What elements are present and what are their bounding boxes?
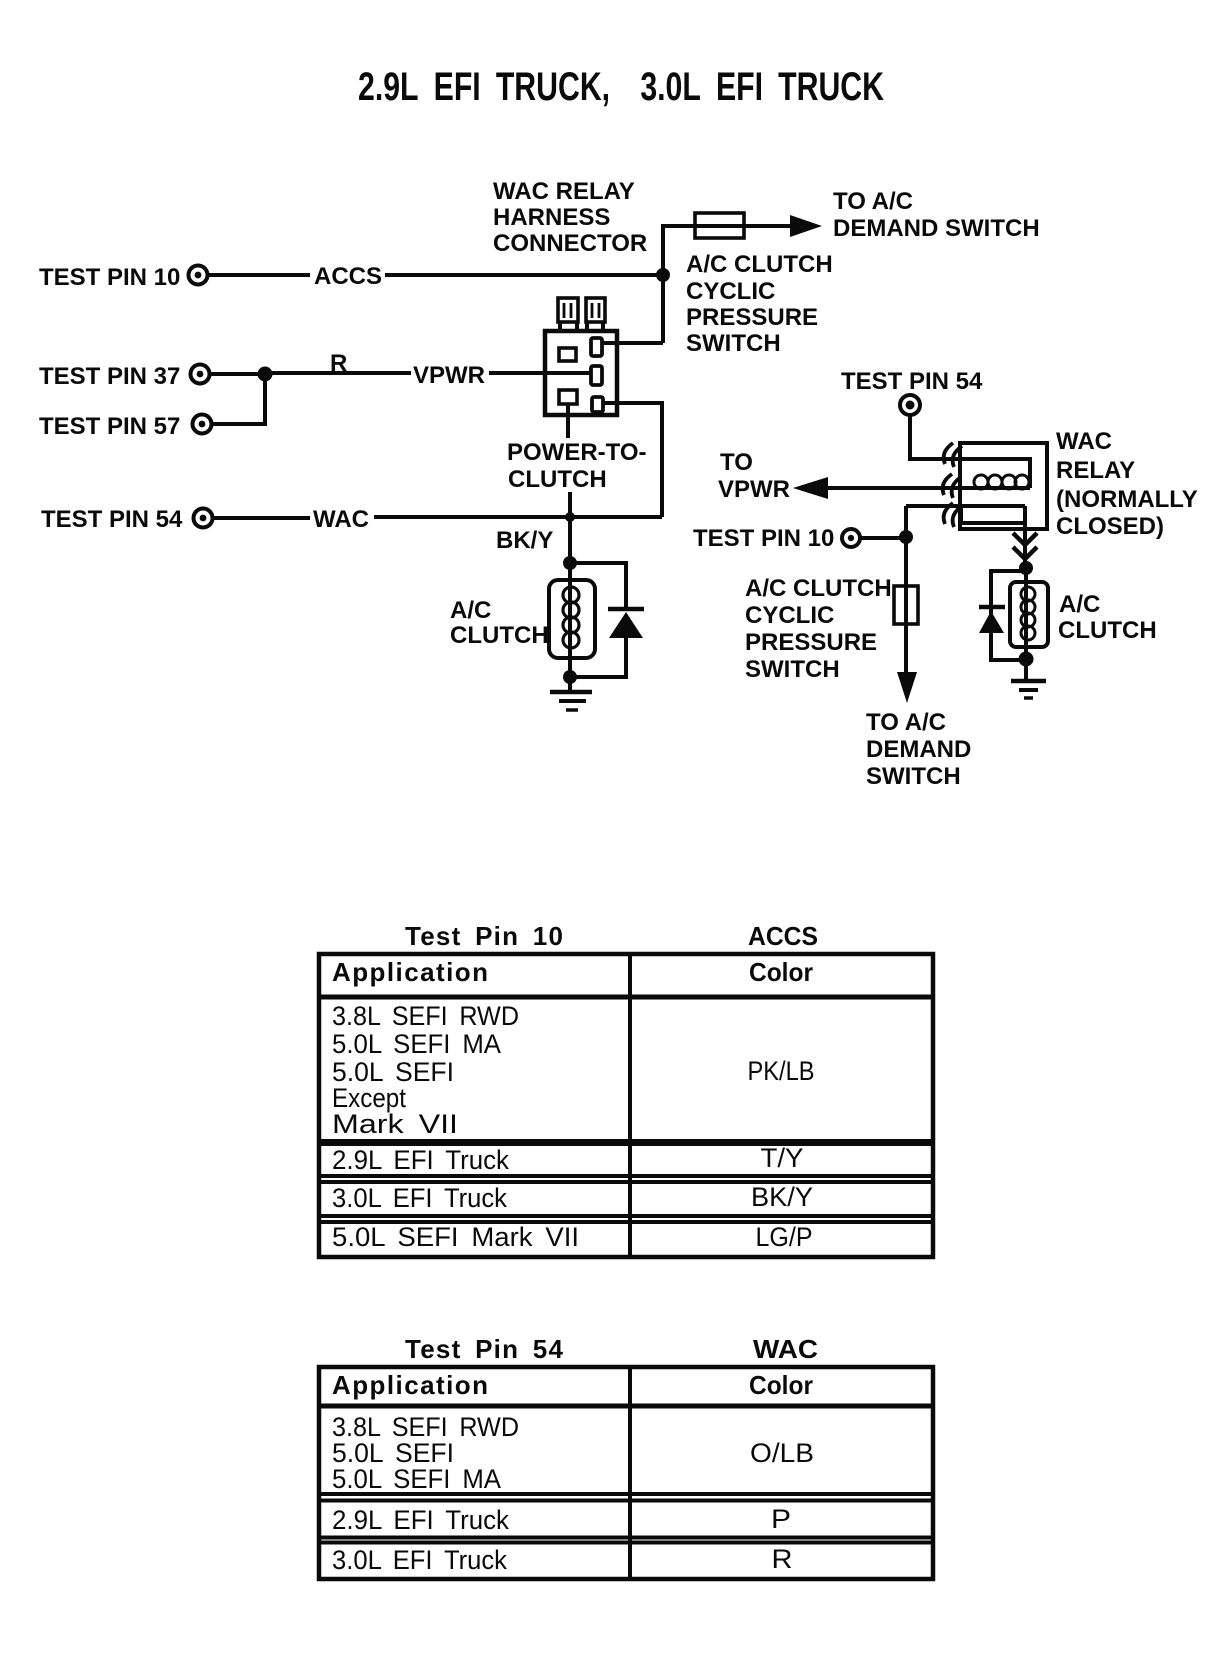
svg-text:P: P — [771, 1504, 791, 1534]
svg-text:TEST PIN 10: TEST PIN 10 — [693, 525, 834, 552]
label A/C clutch cyclic pressure switch (left) — [686, 251, 833, 357]
svg-text:SWITCH: SWITCH — [686, 330, 781, 357]
svg-text:5.0L SEFI Mark VII: 5.0L SEFI Mark VII — [332, 1222, 579, 1252]
wire ACCS right — [385, 273, 663, 277]
svg-text:BK/Y: BK/Y — [496, 527, 553, 554]
relay coil K1 — [974, 475, 1029, 489]
coil A/C clutch (left) — [563, 587, 579, 648]
svg-text:DEMAND SWITCH: DEMAND SWITCH — [833, 215, 1040, 242]
connector U1 body — [545, 331, 617, 415]
diode CR1 triangle — [609, 612, 643, 638]
svg-text:TEST PIN 10: TEST PIN 10 — [39, 264, 180, 291]
svg-text:TEST PIN 54: TEST PIN 54 — [841, 368, 983, 395]
svg-text:DEMAND: DEMAND — [866, 736, 971, 763]
svg-text:ACCS: ACCS — [748, 921, 818, 951]
table 1 row 2 — [332, 1143, 804, 1175]
label TO VPWR — [718, 449, 790, 503]
svg-text:BK/Y: BK/Y — [751, 1182, 813, 1212]
wire R — [265, 371, 411, 375]
svg-text:T/Y: T/Y — [761, 1143, 804, 1173]
svg-text:Mark VII: Mark VII — [332, 1109, 458, 1139]
node junction ACCS — [656, 268, 670, 282]
svg-text:SWITCH: SWITCH — [866, 763, 961, 790]
svg-text:WAC: WAC — [1056, 428, 1112, 455]
label A/C clutch (left) — [450, 597, 549, 649]
arrow to A/C demand switch (down) — [897, 672, 917, 703]
relay strain squiggle top — [944, 443, 962, 467]
label WAC relay normally closed — [1056, 428, 1198, 540]
node crossing blob — [565, 512, 575, 522]
svg-text:A/C CLUTCH: A/C CLUTCH — [686, 251, 833, 278]
coil box A/C clutch (left) — [549, 580, 595, 658]
wire diode branch bottom — [570, 638, 626, 677]
wire clutch loop (right) — [991, 571, 1026, 660]
A/C clutch cyclic pressure switch (left) — [695, 213, 744, 238]
table 1 frame — [319, 954, 933, 1257]
svg-text:Test Pin 54: Test Pin 54 — [405, 1334, 564, 1364]
svg-text:2.9L EFI Truck: 2.9L EFI Truck — [332, 1145, 509, 1175]
table 1 header rule — [319, 995, 933, 1000]
relay inner top line — [961, 459, 1030, 488]
svg-text:R: R — [330, 350, 347, 377]
node junction clutch bottom (right) — [1019, 652, 1034, 667]
diode CR2 bar — [979, 605, 1005, 610]
chevron arrows on relay output — [1013, 533, 1037, 559]
wire pin bottom-right right then down — [603, 403, 662, 517]
svg-text:CYCLIC: CYCLIC — [686, 278, 775, 305]
label WAC relay harness connector — [493, 178, 647, 257]
node junction relay output — [1019, 561, 1033, 575]
wire test pin 54 to relay — [910, 416, 960, 459]
wire test pin 57 up to junction — [213, 374, 265, 424]
svg-text:TO A/C: TO A/C — [833, 188, 913, 215]
relay output wire — [1023, 506, 1027, 568]
svg-text:TO: TO — [720, 449, 753, 476]
ground (left clutch) — [550, 677, 592, 710]
table 2 row 3 — [332, 1544, 793, 1575]
diode CR2 triangle — [979, 611, 1004, 633]
node junction R — [258, 367, 273, 382]
wire clutch coil feed — [568, 563, 572, 677]
table 2 column divider — [628, 1367, 632, 1579]
arrow to VPWR — [793, 477, 828, 499]
wire TO VPWR — [827, 486, 1030, 490]
wire through switch — [695, 224, 793, 228]
wire VPWR to connector — [489, 371, 590, 375]
svg-text:3.8L SEFI RWD: 3.8L SEFI RWD — [332, 1001, 519, 1031]
svg-text:A/C CLUTCH: A/C CLUTCH — [745, 575, 892, 602]
svg-text:TEST PIN 57: TEST PIN 57 — [39, 413, 180, 440]
label A/C clutch (right) — [1058, 591, 1157, 644]
svg-text:RELAY: RELAY — [1056, 457, 1135, 484]
connector pin top-right — [591, 338, 602, 356]
svg-text:Color: Color — [749, 957, 813, 987]
wire test pin 37 to junction — [211, 372, 265, 376]
table 1 row 1 — [332, 1001, 815, 1139]
svg-text:CLUTCH: CLUTCH — [450, 622, 549, 649]
ground (right clutch) — [1011, 659, 1046, 698]
test pin 10 terminal — [189, 266, 208, 285]
label power-to-clutch — [507, 439, 647, 493]
svg-text:3.0L EFI Truck: 3.0L EFI Truck — [332, 1545, 507, 1575]
connector pin top-left — [559, 348, 576, 361]
test pin 10 terminal (right) — [842, 529, 860, 547]
svg-text:VPWR: VPWR — [718, 476, 790, 503]
svg-text:WAC: WAC — [313, 506, 369, 533]
table 1 header row — [332, 957, 813, 987]
wire WAC right — [374, 515, 662, 519]
connector pin middle — [591, 366, 602, 385]
table 2 header row — [332, 1370, 813, 1400]
test pin 54 terminal (left) — [194, 509, 213, 528]
WAC relay K1 body — [960, 443, 1047, 529]
svg-text:Test Pin 10: Test Pin 10 — [405, 921, 563, 951]
svg-text:SWITCH: SWITCH — [745, 656, 840, 683]
connector pin bottom-left — [559, 390, 577, 404]
connector pin bottom-right — [592, 397, 603, 412]
svg-text:(NORMALLY: (NORMALLY — [1056, 486, 1198, 513]
wire diode branch top — [576, 563, 626, 609]
wire vertical to switch — [663, 226, 695, 343]
svg-text:CONNECTOR: CONNECTOR — [493, 230, 647, 257]
table 1 caption — [405, 921, 818, 951]
node junction clutch bottom — [563, 670, 577, 684]
svg-text:HARNESS: HARNESS — [493, 204, 610, 231]
svg-text:A/C: A/C — [450, 597, 491, 624]
node junction clutch top — [563, 556, 577, 570]
svg-text:TEST PIN 37: TEST PIN 37 — [39, 363, 180, 390]
relay strain squiggle bottom — [944, 503, 962, 527]
relay inner lower box — [961, 506, 1025, 523]
label to A/C demand switch (bottom) — [866, 709, 971, 790]
svg-text:CYCLIC: CYCLIC — [745, 602, 834, 629]
label A/C clutch cyclic pressure switch (right) — [745, 575, 892, 683]
wire WAC left — [214, 516, 310, 520]
wire relay lower — [906, 504, 1025, 508]
A/C clutch cyclic pressure switch (right) — [894, 586, 918, 624]
table 1 row 4 — [332, 1222, 813, 1252]
table 2 frame — [319, 1367, 933, 1579]
table 1 row rules — [319, 1139, 933, 1146]
wire test pin 10 to junction — [861, 536, 906, 540]
wire pin top-right to junction — [602, 341, 663, 345]
coil box A/C clutch (right) — [1010, 582, 1048, 647]
wire clutch feed (right) — [1024, 568, 1028, 659]
table 1 column divider — [628, 954, 632, 1257]
svg-text:Color: Color — [749, 1370, 813, 1400]
svg-text:TO A/C: TO A/C — [866, 709, 946, 736]
table 2 header rule — [319, 1404, 933, 1409]
coil A/C clutch (right) — [1021, 587, 1035, 640]
table 2 row 2 — [332, 1504, 791, 1535]
label to A/C demand switch — [833, 188, 1040, 242]
svg-text:5.0L SEFI MA: 5.0L SEFI MA — [332, 1029, 501, 1059]
svg-text:PK/LB: PK/LB — [748, 1056, 815, 1086]
table 2 row 1 — [332, 1412, 814, 1494]
table 1 row 3 — [332, 1182, 813, 1213]
svg-text:O/LB: O/LB — [750, 1438, 814, 1468]
connector tab stems — [560, 322, 603, 331]
svg-text:POWER-TO-: POWER-TO- — [507, 439, 647, 466]
svg-text:A/C: A/C — [1059, 591, 1100, 618]
wire power-to-clutch stub — [566, 404, 570, 438]
svg-text:PRESSURE: PRESSURE — [686, 304, 818, 331]
svg-text:2.9L EFI TRUCK, 3.0L EFI TRUC: 2.9L EFI TRUCK, 3.0L EFI TRUCK — [358, 65, 884, 109]
svg-text:VPWR: VPWR — [413, 362, 485, 389]
svg-text:Application: Application — [332, 1370, 488, 1400]
relay strain squiggle middle — [943, 474, 961, 498]
svg-text:2.9L EFI Truck: 2.9L EFI Truck — [332, 1505, 509, 1535]
wire relay to demand switch — [904, 506, 908, 675]
svg-text:LG/P: LG/P — [756, 1222, 813, 1252]
svg-text:CLUTCH: CLUTCH — [1058, 617, 1157, 644]
svg-text:PRESSURE: PRESSURE — [745, 629, 877, 656]
svg-text:ACCS: ACCS — [314, 263, 382, 290]
svg-text:3.0L EFI Truck: 3.0L EFI Truck — [332, 1183, 507, 1213]
svg-text:TEST PIN 54: TEST PIN 54 — [41, 506, 183, 533]
connector tab 2 — [586, 298, 605, 322]
svg-text:5.0L SEFI MA: 5.0L SEFI MA — [332, 1464, 501, 1494]
table 2 caption — [405, 1334, 818, 1364]
arrow to A/C demand switch — [790, 215, 822, 237]
svg-text:WAC RELAY: WAC RELAY — [493, 178, 635, 205]
node junction test pin 10 — [899, 530, 913, 544]
wire BK/Y vertical — [568, 492, 572, 563]
svg-text:CLUTCH: CLUTCH — [508, 466, 607, 493]
connector tab 1 — [558, 298, 578, 322]
svg-text:WAC: WAC — [753, 1334, 818, 1364]
test pin 54 terminal (right) — [900, 395, 920, 415]
svg-text:R: R — [772, 1544, 793, 1574]
wire ACCS left — [209, 273, 310, 277]
svg-text:Application: Application — [332, 957, 488, 987]
diode CR1 bar — [608, 607, 644, 612]
table 2 row rules — [319, 1494, 933, 1543]
test pin 57 terminal — [193, 415, 212, 434]
test pin 37 terminal — [191, 365, 210, 384]
svg-text:CLOSED): CLOSED) — [1056, 513, 1164, 540]
